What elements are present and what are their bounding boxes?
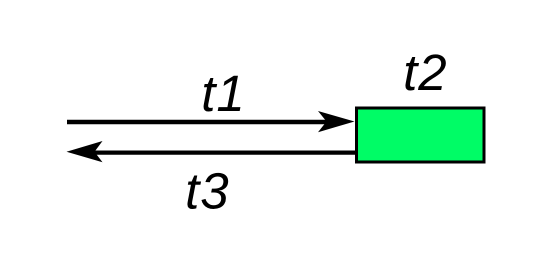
wire t1 (right-going message line) (67, 120, 340, 124)
svg-text:t3: t3 (185, 162, 230, 219)
label t1 (201, 65, 246, 122)
arrowhead t1 (318, 111, 355, 132)
label t2 (403, 44, 448, 101)
wire t3 (left-going message line) (90, 150, 355, 154)
svg-text:t1: t1 (201, 65, 246, 122)
node t2 (green process box) (357, 108, 485, 162)
svg-text:t2: t2 (403, 44, 448, 101)
arrowhead t3 (67, 141, 103, 162)
label t3 (185, 162, 230, 219)
